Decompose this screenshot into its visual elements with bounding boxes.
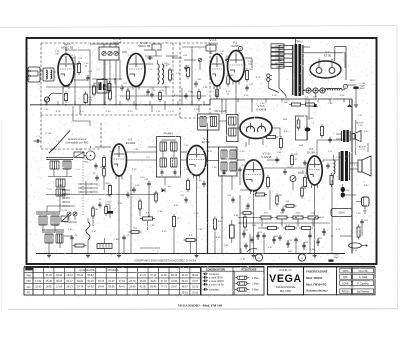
svg-text:33-99: 33-99 (129, 286, 136, 289)
svg-text:380Vl: 380Vl (350, 80, 356, 82)
svg-text:1M: 1M (72, 58, 75, 60)
svg-text:69-84: 69-84 (98, 286, 105, 289)
svg-text:220Vl: 220Vl (338, 212, 345, 215)
svg-text:49-81: 49-81 (150, 280, 157, 283)
svg-text:83-48: 83-48 (150, 286, 157, 289)
svg-text:EF 89: EF 89 (202, 140, 210, 144)
svg-text:S1A: S1A (58, 184, 62, 187)
svg-text:125V: 125V (275, 58, 280, 60)
svg-text:6AN8: 6AN8 (231, 44, 239, 48)
svg-text:C 12: C 12 (360, 149, 365, 151)
svg-text:½ECC 85: ½ECC 85 (138, 44, 151, 48)
svg-text:51-29: 51-29 (46, 274, 53, 277)
svg-text:DIS.: DIS. (343, 276, 348, 279)
svg-text:16-19: 16-19 (67, 274, 74, 277)
svg-text:C 7 B: C 7 B (113, 37, 120, 41)
svg-text:C 2 A: C 2 A (76, 148, 82, 151)
svg-text:FABBRICAZIONE: FABBRICAZIONE (306, 270, 328, 274)
svg-text:QUADRANTE: QUADRANTE (79, 269, 95, 272)
svg-text:220V: 220V (275, 46, 280, 48)
svg-text:EL 84: EL 84 (307, 150, 315, 154)
svg-text:83-91: 83-91 (182, 280, 189, 283)
svg-text:2 Watt: 2 Watt (252, 277, 259, 280)
svg-text:a mica e al filo: a mica e al filo (209, 284, 224, 286)
svg-text:4 Watt: 4 Watt (252, 289, 259, 292)
svg-text:Antenna interna: Antenna interna (68, 137, 87, 141)
svg-text:P. Castino: P. Castino (357, 281, 369, 285)
svg-text:1 Watt: 1 Watt (252, 283, 259, 286)
svg-text:81-27: 81-27 (108, 280, 115, 283)
svg-text:48-41: 48-41 (119, 286, 126, 289)
svg-text:VEGA RADIO - Mod. FM 104: VEGA RADIO - Mod. FM 104 (178, 303, 223, 307)
svg-text:18-82: 18-82 (46, 286, 53, 289)
svg-text:TELEVISIONE: TELEVISIONE (276, 285, 296, 289)
svg-text:36-73: 36-73 (67, 286, 74, 289)
svg-text:ALTOP.: ALTOP. (356, 121, 364, 124)
svg-text:VEGA: VEGA (269, 273, 302, 285)
svg-text:ALTOP.: ALTOP. (359, 146, 367, 149)
svg-text:FO: FO (27, 291, 31, 295)
svg-text:38-15: 38-15 (98, 280, 105, 283)
svg-text:17-89: 17-89 (56, 286, 63, 289)
svg-text:½ 6AN8: ½ 6AN8 (256, 108, 267, 112)
svg-text:22-80: 22-80 (35, 286, 42, 289)
svg-text:Bo/Taretta: Bo/Taretta (357, 290, 369, 294)
svg-text:32µF: 32µF (333, 257, 339, 259)
svg-text:60-16: 60-16 (87, 280, 94, 283)
svg-text:FM 1a MF: FM 1a MF (215, 109, 227, 113)
svg-text:78-22: 78-22 (77, 274, 84, 277)
svg-text:56-84: 56-84 (87, 274, 94, 277)
svg-text:17-82: 17-82 (35, 280, 42, 283)
svg-text:25-83: 25-83 (140, 280, 147, 283)
svg-text:CONDENSATORI: CONDENSATORI (206, 268, 226, 271)
svg-text:47k: 47k (89, 99, 92, 101)
svg-text:½ 6AN8: ½ 6AN8 (261, 155, 272, 159)
svg-text:97-78: 97-78 (77, 286, 84, 289)
svg-text:EZ 80: EZ 80 (324, 54, 332, 58)
svg-text:C 13: C 13 (358, 125, 363, 127)
svg-text:5nF: 5nF (284, 102, 288, 104)
svg-text:145V: 145V (275, 54, 280, 56)
svg-text:63-18: 63-18 (171, 274, 178, 277)
svg-text:31-53: 31-53 (192, 291, 199, 294)
svg-text:ECH81: ECH81 (126, 141, 136, 145)
svg-text:64-50: 64-50 (87, 286, 94, 289)
svg-text:80-64: 80-64 (192, 274, 199, 277)
svg-text:A. Galli: A. Galli (359, 275, 368, 279)
svg-text:MILANO: MILANO (280, 289, 292, 293)
svg-text:TRA 2: TRA 2 (295, 40, 303, 44)
svg-text:(orientabile per FM): (orientabile per FM) (66, 140, 89, 144)
svg-text:30-1-56: 30-1-56 (359, 269, 368, 273)
svg-text:R A D I O: R A D I O (279, 268, 292, 272)
svg-text:23-84: 23-84 (171, 280, 178, 283)
svg-text:CONF.: CONF. (342, 282, 350, 285)
svg-text:77-73: 77-73 (161, 286, 168, 289)
svg-text:17-74: 17-74 (140, 274, 147, 277)
svg-text:OM: OM (26, 279, 30, 283)
svg-text:elettrolitici: elettrolitici (209, 288, 220, 291)
svg-text:68-56: 68-56 (108, 286, 115, 289)
svg-text:Mod. FM104-FO: Mod. FM104-FO (306, 282, 326, 286)
svg-text:34-57: 34-57 (192, 280, 199, 283)
svg-text:160V: 160V (275, 50, 280, 52)
svg-text:25-38: 25-38 (46, 280, 53, 283)
svg-text:97-33: 97-33 (161, 280, 168, 283)
svg-text:Mod. FM104: Mod. FM104 (306, 276, 322, 280)
svg-text:21-65: 21-65 (161, 274, 168, 277)
svg-text:37-14: 37-14 (150, 274, 157, 277)
svg-text:½ECC 85: ½ECC 85 (61, 45, 74, 49)
svg-text:FM MF1: FM MF1 (164, 132, 174, 136)
svg-text:47-63: 47-63 (119, 280, 126, 283)
svg-text:46-87: 46-87 (182, 286, 189, 289)
svg-text:FM: FM (27, 274, 31, 278)
svg-text:53-67: 53-67 (171, 286, 178, 289)
svg-text:75-63: 75-63 (182, 291, 189, 294)
svg-text:83-84: 83-84 (77, 280, 84, 283)
svg-text:DATA: DATA (343, 270, 349, 273)
svg-text:Schema elettrico: Schema elettrico (306, 289, 328, 293)
svg-text:90-90: 90-90 (56, 280, 63, 283)
svg-text:I GRUPPI MF1 SONO DISPOSTI: I GRUPPI MF1 SONO DISPOSTI IN ACCORDO DI… (134, 260, 196, 263)
svg-text:350Vl: 350Vl (359, 88, 365, 90)
svg-text:CHASSIS: CHASSIS (108, 269, 119, 272)
